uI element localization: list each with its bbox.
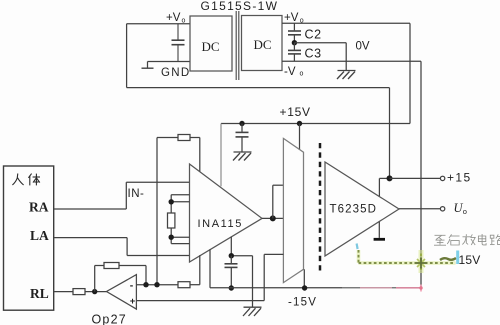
- resistor feedback top: [157, 135, 200, 172]
- node cap to rail: [229, 285, 234, 290]
- wire -V down far right: [420, 61, 422, 288]
- svg-text:+15V: +15V: [280, 105, 311, 119]
- glyph dian: [478, 234, 486, 245]
- node RG top: [169, 199, 174, 204]
- svg-text:+: +: [130, 296, 136, 307]
- svg-text:G1515S-1W: G1515S-1W: [201, 0, 279, 13]
- op-amp U4 T6235D: [325, 162, 399, 256]
- label to post amplifier (zhi hou fang dian lu): [434, 234, 500, 245]
- svg-text:0V: 0V: [356, 41, 370, 53]
- terminal +15: [440, 176, 444, 180]
- svg-text:o: o: [300, 70, 304, 77]
- svg-text:T6235D: T6235D: [330, 204, 378, 216]
- resistor Op27 feedback: [95, 263, 146, 292]
- svg-text:DC: DC: [202, 39, 220, 54]
- ground GND tick: [142, 62, 154, 69]
- wire INA REF pin down: [231, 237, 252, 307]
- svg-text:o: o: [463, 207, 467, 216]
- ground hatch analog: [243, 307, 262, 316]
- wire Op27 non-inverting input: [136, 254, 283, 300]
- DC-DC module U3 right box: [242, 16, 283, 71]
- capacitor C3: [288, 43, 301, 62]
- node feedback junction: [143, 282, 148, 287]
- svg-text:-: -: [130, 279, 134, 291]
- svg-text:Op27: Op27: [92, 313, 127, 325]
- wire LA to IN+: [54, 238, 190, 256]
- wire RG loop lower: [171, 228, 189, 244]
- op-amp U5 Op27: [107, 275, 137, 310]
- svg-text:+V: +V: [166, 12, 181, 24]
- wire modulator V- pin: [303, 269, 305, 288]
- svg-text:o: o: [182, 17, 186, 24]
- wire T6235D V+ pin: [379, 178, 389, 196]
- isolation barrier dashed: [319, 143, 322, 271]
- svg-text:GND: GND: [161, 67, 190, 79]
- svg-text:INA115: INA115: [198, 218, 243, 230]
- wire Op27 inverting input: [136, 284, 178, 286]
- wire RG loop upper: [171, 195, 189, 213]
- glyph lu: [490, 234, 500, 244]
- capacitor C2: [288, 23, 301, 42]
- svg-text:-15V: -15V: [288, 296, 317, 308]
- wire -15V rail: [210, 287, 421, 289]
- svg-text:+V: +V: [284, 12, 299, 24]
- svg-text:-V: -V: [284, 66, 296, 78]
- wire +15V rail: [221, 123, 410, 125]
- svg-text:C2: C2: [305, 28, 322, 42]
- svg-text:o: o: [300, 17, 304, 24]
- wire RA to IN-: [54, 182, 190, 209]
- node decoupling cap junction: [239, 121, 244, 126]
- wire +V down right: [409, 23, 411, 123]
- capacitor REF bypass: [225, 256, 238, 288]
- glyph hou: [447, 234, 459, 245]
- node RG bottom: [169, 235, 174, 240]
- modulator trapezoid: [283, 138, 303, 282]
- wire sense vertical long: [156, 138, 158, 285]
- artifact scribble before 15V: [440, 251, 459, 265]
- node output junction: [270, 215, 276, 221]
- ground hatch isolated: [233, 152, 252, 161]
- svg-text:RA: RA: [29, 200, 49, 215]
- terminal Uo: [440, 207, 444, 211]
- transformer isolation bars: [236, 11, 239, 80]
- wire modulator V+ pin: [299, 124, 301, 151]
- wire RL row: [54, 289, 107, 295]
- op-amp U1 INA115: [190, 164, 263, 262]
- node highlight blob: [419, 250, 424, 273]
- human body box: [4, 166, 54, 310]
- label human body (ren ti): [12, 174, 40, 186]
- resistor RG: [168, 213, 175, 228]
- svg-text:15V: 15V: [459, 253, 481, 267]
- wire +V secondary: [282, 22, 410, 24]
- capacitor C1: [172, 24, 185, 62]
- wire highlighted green dashed net: [357, 244, 456, 274]
- wire output to modulator upper: [273, 185, 284, 218]
- glyph zhi: [434, 235, 446, 245]
- node 0V junction: [292, 40, 297, 45]
- wire bottom long +15 return: [127, 87, 390, 89]
- wire 0V net: [294, 43, 346, 71]
- svg-text:IN-: IN-: [128, 188, 145, 200]
- wire -V secondary: [282, 60, 421, 62]
- wire GND pin: [148, 61, 191, 63]
- wire INA output: [262, 217, 283, 219]
- wire left outer vertical: [126, 24, 128, 88]
- node Op27 output: [92, 289, 97, 294]
- svg-text:+15: +15: [447, 171, 472, 185]
- svg-text:LA: LA: [30, 228, 49, 243]
- wire INA V- pin: [209, 249, 211, 287]
- node +15 junction: [387, 175, 393, 181]
- wire +V primary top: [127, 23, 190, 25]
- glyph fang: [462, 234, 475, 245]
- wire to +15 terminal: [390, 177, 441, 179]
- DC-DC module U2 left box: [190, 16, 232, 71]
- ground hatch 0V: [337, 71, 356, 80]
- svg-text:C3: C3: [305, 47, 322, 61]
- wire INA V+ pin: [220, 124, 222, 187]
- capacitor decoupling +15V: [236, 124, 249, 152]
- node modulator to rail: [302, 285, 307, 290]
- svg-text:DC: DC: [254, 37, 272, 52]
- wire +V outer return vertical: [389, 88, 391, 179]
- node trapezoid supply junction: [297, 121, 302, 126]
- wire T6235D output: [399, 208, 440, 210]
- wire pink artifact on rail: [342, 285, 423, 292]
- wire resistor to INA hyp pin: [190, 255, 200, 285]
- resistor series to INA: [178, 282, 190, 288]
- node sense junction: [154, 282, 159, 287]
- svg-text:RL: RL: [30, 286, 49, 301]
- ground bar T6235D: [374, 222, 385, 241]
- node REF junction: [229, 253, 234, 258]
